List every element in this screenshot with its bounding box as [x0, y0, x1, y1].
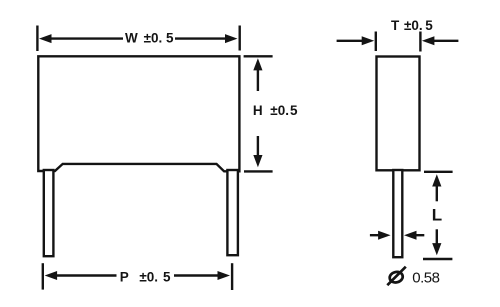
dimension W extension line left	[36, 26, 38, 52]
dimension L extension line top	[424, 171, 453, 173]
dimension W arrow left	[39, 34, 123, 43]
capacitor body side view	[377, 57, 420, 171]
dimension P arrow left	[45, 271, 117, 280]
dimension L arrow up	[432, 174, 441, 201]
dimension W extension line right	[238, 26, 240, 51]
dimension T extension line left	[375, 32, 377, 52]
right lead front view	[227, 170, 238, 255]
dimension H extension line top	[244, 55, 273, 57]
dimension P extension line right	[231, 263, 233, 290]
svg-text:T±0.5: T±0.5	[391, 18, 433, 33]
dimension L arrow down	[432, 229, 441, 255]
svg-text:H±0.5: H±0.5	[253, 103, 298, 118]
dimension P arrow right	[174, 271, 230, 280]
svg-text:W±0.5: W±0.5	[125, 30, 174, 45]
dimension H extension line bottom	[244, 170, 273, 172]
lead diameter arrow left	[370, 231, 391, 240]
dimension H arrow down	[253, 136, 262, 167]
dimension T extension line right	[419, 32, 421, 52]
dimension P extension line left	[42, 263, 44, 289]
capacitor body front view	[38, 56, 239, 171]
svg-text:P±0.5: P±0.5	[120, 269, 171, 284]
dimension H arrow up	[253, 58, 262, 91]
dimension T arrow right	[422, 36, 459, 45]
dimension T arrow left	[337, 36, 375, 45]
svg-text:L: L	[432, 206, 442, 225]
lead diameter arrow right	[404, 231, 424, 240]
lead side view	[393, 170, 402, 257]
left lead front view	[44, 170, 54, 256]
dimension W arrow right	[175, 34, 238, 43]
diameter symbol	[387, 267, 406, 286]
svg-text:0.58: 0.58	[412, 270, 439, 287]
dimension L extension line bottom	[423, 258, 452, 260]
